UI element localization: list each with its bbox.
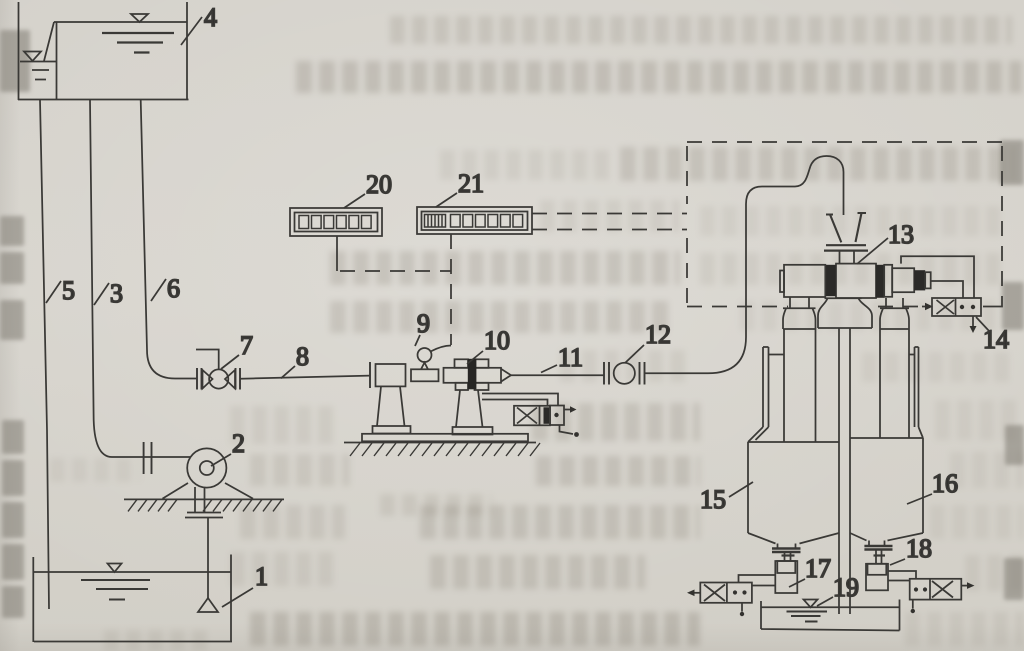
svg-text:13: 13	[888, 220, 914, 249]
svg-text:17: 17	[805, 554, 831, 583]
svg-text:16: 16	[932, 469, 958, 498]
svg-text:2: 2	[232, 429, 245, 458]
svg-text:21: 21	[458, 169, 484, 198]
svg-text:10: 10	[484, 326, 510, 355]
svg-text:4: 4	[204, 3, 217, 32]
svg-text:19: 19	[833, 573, 859, 602]
svg-text:20: 20	[366, 170, 392, 199]
svg-text:1: 1	[255, 562, 268, 591]
svg-text:9: 9	[417, 309, 430, 338]
svg-text:5: 5	[62, 276, 75, 305]
svg-text:15: 15	[700, 485, 726, 514]
svg-text:8: 8	[296, 342, 309, 371]
svg-text:7: 7	[240, 331, 253, 360]
svg-text:3: 3	[110, 279, 123, 308]
svg-text:18: 18	[906, 534, 932, 563]
svg-text:12: 12	[645, 320, 671, 349]
svg-text:11: 11	[558, 343, 583, 372]
svg-text:6: 6	[167, 274, 180, 303]
